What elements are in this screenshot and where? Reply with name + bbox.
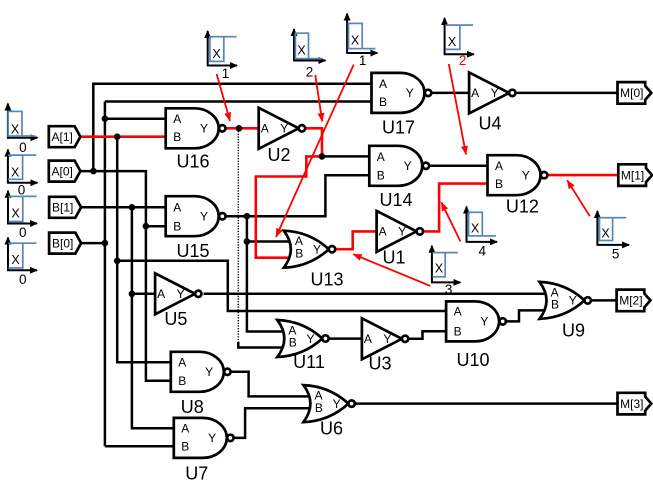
svg-text:M[1]: M[1] (621, 168, 644, 182)
node U16.A / B[0] (102, 115, 109, 122)
node U16.Y junction (236, 125, 243, 132)
wire A[1] vertical to U8.A (117, 137, 171, 363)
wire U4.Y to M[0] (517, 92, 618, 95)
wire branch to U13.A (247, 240, 293, 243)
svg-text:A: A (471, 86, 479, 100)
svg-text:4: 4 (479, 244, 487, 259)
wire B[0] stub (81, 242, 105, 245)
svg-text:U13: U13 (310, 270, 343, 290)
waveform probe icon L3 (B[1], value 0) (7, 191, 37, 240)
svg-text:Y: Y (313, 243, 321, 257)
port M[1] (618, 164, 652, 186)
arrow from red marker 2 to U14.Y wire (449, 64, 466, 155)
nand U8 (171, 352, 231, 417)
svg-text:A: A (173, 112, 181, 126)
svg-text:U12: U12 (506, 197, 539, 217)
waveform probe icon L2 (A[0], value 0) (7, 150, 38, 198)
svg-text:Y: Y (205, 365, 213, 379)
waveform probe icon T2 (marker 2) (293, 29, 325, 80)
svg-text:B: B (295, 246, 303, 260)
wire U15.Y to U14.B (226, 175, 370, 216)
svg-text:Y: Y (177, 287, 185, 301)
node B[1] to U5 (129, 291, 136, 298)
svg-text:U9: U9 (562, 321, 585, 341)
nand U16 (166, 108, 226, 171)
svg-text:X: X (11, 207, 20, 221)
nor U11 (277, 320, 328, 372)
arrow from marker 1 to U16.Y node (217, 74, 230, 121)
nor U9 (540, 282, 591, 341)
svg-text:Y: Y (398, 225, 406, 239)
inverter U1 (377, 211, 423, 268)
svg-text:B[0]: B[0] (52, 236, 73, 250)
svg-text:U11: U11 (293, 352, 325, 372)
svg-text:B: B (454, 325, 462, 339)
svg-text:B: B (181, 440, 189, 454)
wire red A[1] to U16.B (80, 135, 166, 138)
port A[1] (49, 126, 81, 147)
svg-text:A: A (173, 201, 181, 215)
svg-text:M[0]: M[0] (620, 86, 643, 100)
wire U11.B corner (238, 342, 284, 348)
waveform probe icon L4 (B[0], value 0) (7, 238, 37, 288)
svg-text:B[1]: B[1] (52, 201, 73, 215)
svg-text:A: A (377, 150, 385, 164)
wire B[0] vertical bus (104, 102, 107, 447)
svg-text:X: X (601, 227, 610, 241)
waveform probe icon T1 (marker 1) (207, 31, 237, 81)
node A[1] branch (114, 133, 121, 140)
node A[0] (90, 168, 97, 175)
svg-text:3: 3 (445, 282, 453, 297)
svg-text:Y: Y (200, 210, 208, 224)
arrow from marker 2 to U2.Y corner (315, 75, 322, 122)
svg-text:B: B (315, 401, 323, 415)
svg-text:Y: Y (404, 159, 412, 173)
svg-text:A: A (261, 122, 269, 136)
svg-text:U3: U3 (368, 354, 391, 374)
svg-text:Y: Y (522, 168, 530, 182)
svg-text:X: X (297, 44, 306, 58)
node U2.Y / U14.A junction (319, 153, 326, 160)
nand U12 (488, 155, 548, 217)
svg-text:X: X (11, 123, 20, 137)
svg-text:X: X (11, 166, 20, 180)
svg-text:U16: U16 (176, 152, 209, 172)
waveform probe icon R4 (marker 4) (466, 207, 497, 259)
svg-text:U15: U15 (176, 241, 209, 261)
wire U14.A (322, 155, 369, 158)
svg-text:A: A (178, 356, 186, 370)
svg-text:B: B (178, 374, 186, 388)
svg-text:1: 1 (359, 53, 367, 68)
waveform probe icon L1 (A[1], value 0) (7, 104, 38, 156)
wire red U2.Y staircase to U13.B (256, 128, 322, 257)
node U15.Y branch (244, 213, 251, 220)
waveform probe icon T4 (marker 2, red) (444, 18, 474, 68)
wire U9.Y to M[2] (591, 299, 617, 302)
svg-text:Y: Y (406, 86, 414, 100)
port B[0] (49, 233, 81, 254)
port M[3] (618, 393, 652, 415)
wire B[1] vertical to U7.A (132, 207, 174, 428)
inverter U5 (155, 273, 201, 329)
wire B[1] branch to U5.A (132, 293, 155, 296)
wire B[1] line to U15.A (81, 206, 166, 209)
svg-text:U2: U2 (267, 145, 290, 165)
svg-text:U8: U8 (181, 397, 204, 417)
svg-text:Y: Y (333, 397, 341, 411)
svg-text:A: A (379, 225, 387, 239)
arrow from marker 3 to U13.Y wire (353, 254, 430, 286)
wire U17.A from A[0] vertical (93, 84, 371, 171)
port A[0] (49, 161, 81, 182)
wire U3.Y to U10.B (408, 331, 446, 339)
nand U10 (446, 301, 506, 370)
wire red U1.Y to U12.B (423, 184, 488, 232)
svg-text:B: B (173, 220, 181, 234)
svg-text:X: X (471, 222, 480, 236)
wire U8.Y to U6.A (231, 372, 310, 397)
nand U14 (369, 146, 429, 210)
svg-text:U5: U5 (164, 309, 187, 329)
svg-text:U1: U1 (382, 248, 405, 268)
svg-text:0: 0 (19, 140, 27, 155)
svg-text:B: B (173, 130, 181, 144)
svg-text:A[1]: A[1] (52, 130, 73, 144)
svg-text:Y: Y (383, 332, 391, 346)
node U13.A branch (244, 238, 251, 245)
svg-text:X: X (435, 262, 444, 276)
svg-text:X: X (351, 34, 360, 48)
wire U7.B (105, 445, 174, 448)
svg-text:Y: Y (200, 122, 208, 136)
inverter U4 (469, 72, 515, 133)
wire U16.A (105, 117, 166, 120)
svg-text:M[2]: M[2] (619, 294, 642, 308)
nor U6 (303, 385, 354, 438)
svg-text:X: X (212, 47, 221, 61)
svg-text:U4: U4 (478, 114, 501, 134)
port M[0] (618, 82, 652, 104)
node B[1] (129, 204, 136, 211)
wire A[1] branch to U10.A (117, 261, 446, 311)
svg-text:U14: U14 (379, 190, 412, 210)
svg-text:A: A (454, 304, 462, 318)
svg-text:U7: U7 (185, 464, 208, 484)
svg-text:X: X (448, 35, 457, 49)
svg-text:Y: Y (569, 294, 577, 308)
node A[1] lower branch (114, 258, 121, 265)
svg-text:M[3]: M[3] (620, 397, 643, 411)
inverter U3 (362, 318, 408, 373)
svg-text:1: 1 (222, 66, 230, 81)
wire U6.Y to M[3] (355, 402, 618, 405)
svg-text:Y: Y (491, 86, 499, 100)
nor U13 (284, 231, 344, 290)
wire U17.B (105, 100, 372, 103)
svg-text:2: 2 (459, 53, 467, 68)
wire U7.Y to U6.B (234, 408, 310, 438)
svg-text:X: X (11, 253, 20, 267)
svg-text:B: B (379, 95, 387, 109)
node A[0] to U15.B (143, 223, 150, 230)
wire U10.Y to U9.B (506, 310, 546, 321)
svg-text:B: B (495, 177, 503, 191)
waveform probe icon T3 (marker 1) (346, 14, 377, 69)
wire U15.Y branch to U11.A (247, 216, 285, 331)
svg-text:5: 5 (612, 247, 620, 262)
svg-text:Y: Y (208, 431, 216, 445)
nand U15 (166, 196, 226, 261)
arrow from marker 4 to U1.Y riser (441, 202, 460, 241)
svg-text:U6: U6 (320, 419, 343, 439)
port B[1] (49, 197, 81, 218)
waveform probe icon R5 (marker 5) (597, 211, 629, 262)
wire A[0] to U8.B (80, 171, 171, 381)
arrow from marker 5 to M[1] wire (567, 180, 590, 216)
svg-text:B: B (377, 169, 385, 183)
svg-text:0: 0 (19, 272, 27, 287)
svg-text:A: A (495, 159, 503, 173)
wire U11.Y to U3.A (329, 337, 362, 340)
svg-text:Y: Y (280, 122, 288, 136)
node B[0] (102, 240, 109, 247)
svg-text:B: B (551, 298, 559, 312)
wire red U13.Y to U1.A (335, 231, 376, 249)
wire U15.B (146, 225, 166, 228)
svg-text:0: 0 (19, 225, 27, 240)
wire U5.Y to U9.A (204, 293, 547, 296)
svg-text:A: A (379, 77, 387, 91)
svg-text:A[0]: A[0] (52, 164, 73, 178)
arrow from marker 1 (T3) to U13.A area (276, 65, 354, 237)
svg-text:A: A (157, 287, 165, 301)
nand U17 (372, 73, 432, 137)
nand U7 (174, 418, 234, 484)
svg-text:A: A (181, 422, 189, 436)
port M[2] (617, 290, 651, 312)
svg-text:U17: U17 (382, 117, 415, 137)
wire red U16.Y to U2.A (226, 127, 259, 130)
svg-text:Y: Y (480, 315, 488, 329)
waveform probe icon R3 (marker 3) (431, 246, 460, 297)
svg-text:A: A (364, 332, 372, 346)
svg-text:B: B (289, 336, 297, 350)
wire dotted U16.Y to U11.B (237, 128, 239, 343)
inverter U2 (259, 108, 305, 165)
wire red U12.Y to M[1] (547, 174, 618, 177)
svg-text:U10: U10 (456, 350, 489, 370)
svg-text:Y: Y (306, 332, 314, 346)
svg-text:2: 2 (306, 65, 314, 80)
wire U17.Y to U4.A (431, 92, 469, 95)
wire U14.Y to U12.A (429, 165, 487, 168)
svg-text:0: 0 (18, 183, 26, 198)
